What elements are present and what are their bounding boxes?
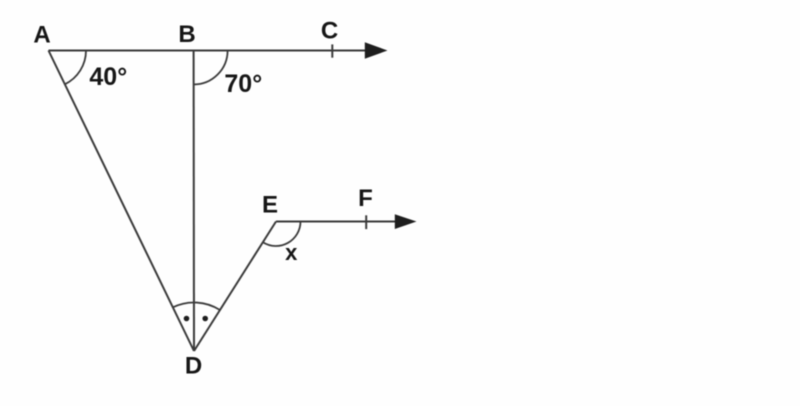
svg-text:70°: 70°	[224, 70, 262, 98]
svg-text:C: C	[321, 18, 338, 45]
svg-text:E: E	[262, 192, 278, 219]
svg-text:40°: 40°	[89, 63, 127, 91]
svg-text:F: F	[358, 185, 373, 212]
svg-text:x: x	[285, 240, 298, 265]
svg-text:A: A	[33, 21, 50, 48]
svg-text:B: B	[178, 21, 195, 48]
svg-text:D: D	[185, 353, 202, 380]
